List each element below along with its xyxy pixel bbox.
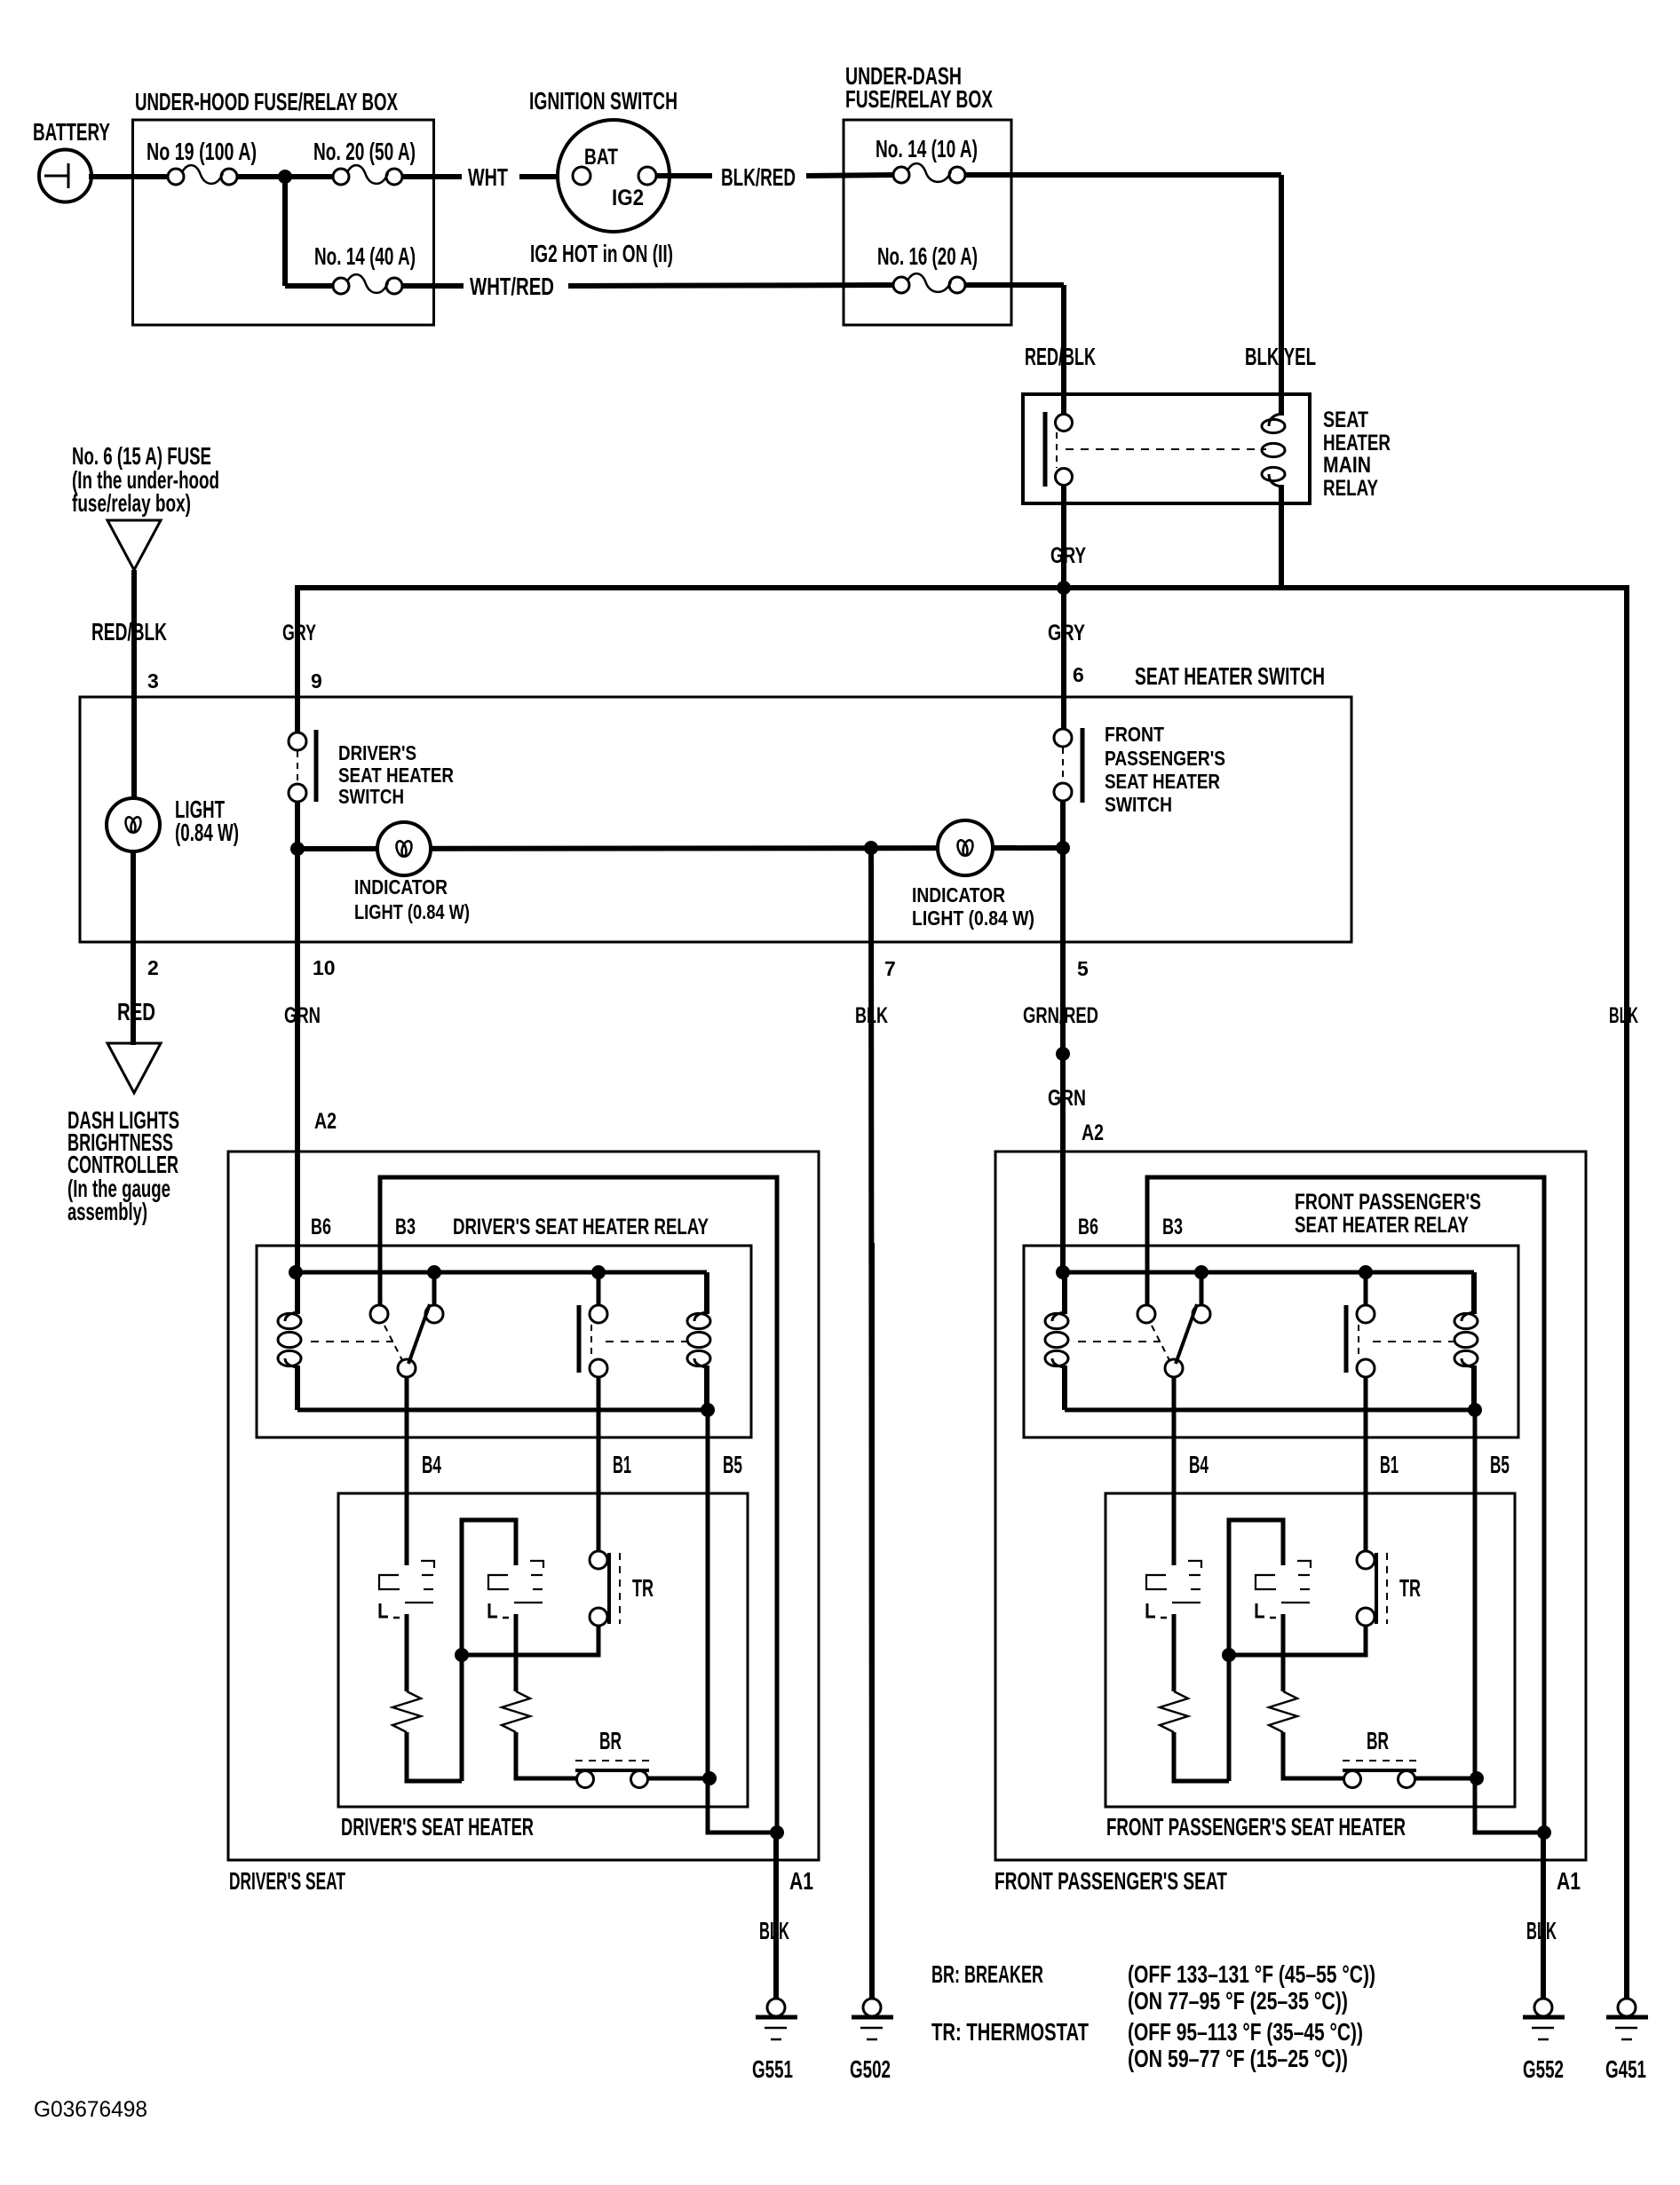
main relay coil [1279,396,1284,416]
svg-text:10: 10 [313,956,336,979]
svg-text:RED/BLK: RED/BLK [91,618,167,645]
ground G451 [1624,1953,1629,1999]
svg-text:FRONT PASSENGER'S: FRONT PASSENGER'S [1295,1190,1481,1215]
svg-text:G502: G502 [850,2055,891,2083]
wire GRY from main relay [1061,503,1066,590]
svg-text:G451: G451 [1605,2055,1646,2083]
svg-text:No. 14 (40 A): No. 14 (40 A) [314,242,416,270]
wire RED/BLK down to relay [1061,285,1066,398]
driver relay switch dashed arm [384,1326,402,1360]
wire BLK/YEL down to relay coil [1279,175,1284,396]
wire GRY to passenger switch [1061,588,1066,732]
junction J1 [278,170,292,184]
svg-text:TR: TR [1399,1574,1421,1602]
junction bus-common driver [427,1265,441,1279]
fuse No.14 (40 A) [333,278,349,294]
ignition terminal BAT [573,167,590,185]
driver resistor 2 [502,1691,530,1732]
wire WHT/RED segment a [402,283,464,289]
svg-text:DRIVER'S: DRIVER'S [338,741,416,764]
svg-text:B6: B6 [1078,1215,1098,1239]
svg-text:IG2 HOT in ON (II): IG2 HOT in ON (II) [530,240,673,267]
svg-text:BATTERY: BATTERY [33,118,110,146]
driver relay coil right [704,1272,709,1314]
junction J-B5 passenger [1468,1403,1482,1417]
passenger relay switch terminal common [1193,1305,1210,1323]
svg-text:HEATER: HEATER [1323,431,1391,455]
wire junction to fuse14-40A [285,283,335,289]
wire element2 feed passenger [1229,1520,1283,1781]
main relay contact bar [1043,412,1048,487]
svg-text:assembly): assembly) [67,1198,147,1225]
svg-text:DRIVER'S SEAT HEATER: DRIVER'S SEAT HEATER [341,1813,534,1841]
wire B5 driver [706,1410,710,1778]
wire RED/BLK fuse6 down [131,570,137,800]
svg-text:BR: BR [1367,1727,1389,1754]
indicator light L2 [377,822,431,875]
svg-text:BLK/YEL: BLK/YEL [1245,343,1316,370]
light L1 [107,798,160,851]
fuse No.6 (15 A) symbol [107,520,161,570]
junction bus-B6 passenger [1056,1265,1070,1279]
svg-text:TR: THERMOSTAT: TR: THERMOSTAT [931,2018,1089,2046]
driver switch dashed link [297,751,298,783]
svg-text:RELAY: RELAY [1323,476,1378,501]
under-dash fuse/relay box [844,120,1011,325]
main relay stub bottom [1061,484,1066,504]
driver relay contact terminal top [590,1305,607,1323]
wire B1 passenger [1364,1377,1368,1552]
wire BLK right down [1624,588,1629,1999]
svg-text:B3: B3 [395,1215,416,1239]
driver heater element 1 [421,1561,434,1568]
main relay contact dashed link [1056,432,1058,468]
wire B5 passenger [1473,1410,1478,1778]
junction J-BR driver [702,1771,717,1785]
junction bus-common passenger [1194,1265,1208,1279]
wire resistor1 bottom driver [407,1732,462,1781]
wire B1 driver [597,1377,601,1552]
svg-text:PASSENGER'S: PASSENGER'S [1105,747,1225,770]
driver relay switch terminal B3 [370,1305,388,1323]
passenger relay contact dashed [1358,1325,1359,1358]
breaker BR passenger terminal right [1399,1771,1415,1788]
wire GRN passenger down [1060,1054,1066,1275]
wire element2 to resistor2 driver [514,1614,519,1691]
fuse No.20 (50 A) [333,169,349,185]
driver seat heater switch SW2 terminal bottom [289,784,306,802]
thermostat TR passenger bars [1375,1553,1378,1624]
passenger relay switch arm [1176,1304,1197,1364]
wire fuse19 to junction [237,174,335,179]
svg-text:DRIVER'S SEAT HEATER RELAY: DRIVER'S SEAT HEATER RELAY [453,1215,709,1239]
wire TR to junction driver [462,1626,598,1655]
driver relay switch terminal common [425,1305,443,1323]
seat heater main relay U1 box [1023,394,1310,503]
wire driver switch to junction [295,802,300,851]
thermostat TR driver bars [607,1553,611,1624]
passenger relay contact bar [1344,1305,1349,1373]
svg-text:No. 20 (50 A): No. 20 (50 A) [313,138,416,165]
passenger seat heater switch SW3 terminal bottom [1054,783,1072,801]
svg-text:INDICATOR: INDICATOR [354,875,448,899]
svg-text:SEAT HEATER RELAY: SEAT HEATER RELAY [1295,1213,1469,1238]
svg-text:SEAT: SEAT [1323,408,1368,432]
svg-text:B6: B6 [311,1215,331,1239]
svg-text:B4: B4 [422,1451,441,1478]
svg-text:A1: A1 [789,1867,813,1895]
svg-text:GRN: GRN [1048,1086,1086,1111]
svg-text:SWITCH: SWITCH [1105,793,1172,816]
indicator light L3 [938,820,993,875]
fuse No.14 (10 A) [893,167,909,183]
wire element2 feed driver [462,1520,516,1781]
passenger relay bus top [1063,1271,1474,1275]
passenger relay contact terminal top [1357,1305,1375,1323]
main relay stub top [1061,394,1066,416]
wire WHT/RED segment b [568,285,895,286]
svg-text:B4: B4 [1189,1451,1208,1478]
svg-text:WHT: WHT [468,163,508,191]
wire indicator bus left [297,848,1063,849]
driver seat heater box [338,1493,748,1807]
svg-text:B3: B3 [1162,1215,1183,1239]
wire B3 loop passenger [1147,1177,1544,1833]
svg-text:SEAT HEATER: SEAT HEATER [1105,770,1220,793]
wire B4 driver [405,1377,409,1565]
ground G552 [1541,1831,1546,1999]
junction J2 GRY [1057,581,1071,595]
passenger seat heater switch SW3 terminal top [1054,729,1072,747]
junction J-TR driver [455,1648,469,1662]
svg-text:FUSE/RELAY BOX: FUSE/RELAY BOX [845,85,993,113]
svg-text:(0.84 W): (0.84 W) [175,819,239,846]
passenger relay dashed link left [1078,1341,1161,1342]
driver relay bus top [296,1271,707,1275]
wire BLK/YEL from coil down [1279,503,1284,590]
svg-text:(ON 59–77 °F (15–25 °C)): (ON 59–77 °F (15–25 °C)) [1128,2045,1348,2072]
wire breaker to B5 passenger [1415,1777,1475,1781]
svg-text:RED: RED [117,998,155,1025]
svg-text:GRY: GRY [282,621,316,645]
svg-text:No 19 (100 A): No 19 (100 A) [147,138,257,165]
fuse No.16 (20 A) [893,277,909,293]
wire junction J1 down [282,177,288,286]
driver relay stub common [432,1272,437,1306]
bus wire horizontal y662 [295,585,1629,590]
svg-text:B5: B5 [1490,1451,1510,1478]
passenger resistor 2 [1269,1691,1297,1732]
wire element1 to resistor1 driver [405,1614,409,1691]
arrow to dash lights controller [107,1043,161,1093]
breaker BR driver bars [575,1769,649,1772]
passenger relay switch terminal B4 [1165,1359,1183,1377]
passenger heater element 2 [1297,1561,1311,1568]
driver relay switch arm [408,1304,430,1364]
passenger relay coil right [1471,1272,1477,1314]
svg-text:LIGHT (0.84 W): LIGHT (0.84 W) [912,906,1034,930]
svg-text:B5: B5 [723,1451,742,1478]
wire BLK/RED segment a [656,173,712,178]
ignition switch SW1 [558,120,670,232]
svg-text:fuse/relay box): fuse/relay box) [72,489,191,517]
driver relay contact terminal bottom [590,1359,607,1377]
svg-text:BLK: BLK [1609,1003,1638,1028]
svg-text:SEAT HEATER SWITCH: SEAT HEATER SWITCH [1135,662,1325,690]
thermostat TR driver terminal bottom [590,1608,607,1626]
svg-text:BR: BREAKER: BR: BREAKER [931,1960,1043,1988]
passenger resistor 1 [1160,1691,1188,1732]
wire BLK mid down [871,848,872,1999]
junction bus-B6 driver [289,1265,303,1279]
svg-text:(ON 77–95 °F (25–35 °C)): (ON 77–95 °F (25–35 °C)) [1128,1987,1348,2015]
passenger relay stub contact [1364,1272,1368,1306]
driver resistor 1 [392,1691,421,1732]
svg-text:A2: A2 [314,1109,337,1134]
passenger relay switch dashed arm [1152,1326,1169,1360]
breaker BR driver terminal left [577,1771,594,1788]
fuse No.19 (100 A) [168,169,184,185]
svg-text:No. 16 (20 A): No. 16 (20 A) [877,242,978,270]
under-hood fuse/relay box [133,120,434,325]
driver relay dashed link left [311,1341,393,1342]
wire resistor2 to breaker passenger [1283,1732,1343,1778]
driver relay contact bar [577,1305,582,1373]
driver relay stub contact [597,1272,601,1306]
ground G551 [773,1831,779,1999]
driver switch bar [314,730,319,802]
wire WHT segment a [402,174,462,179]
svg-text:UNDER-HOOD FUSE/RELAY BOX: UNDER-HOOD FUSE/RELAY BOX [135,88,398,115]
junction J-B5 driver [701,1403,715,1417]
wire fuse14 to corner [965,172,1281,178]
svg-text:(OFF 95–113 °F (35–45 °C)): (OFF 95–113 °F (35–45 °C)) [1128,2018,1363,2046]
wire resistor2 to breaker driver [516,1732,576,1778]
svg-text:IGNITION SWITCH: IGNITION SWITCH [529,87,678,115]
thermostat TR driver terminal top [590,1551,607,1569]
main relay terminal bottom [1056,469,1073,486]
svg-text:GRN/RED: GRN/RED [1023,1003,1098,1028]
wire passenger switch to junction [1060,801,1066,848]
thermostat TR passenger terminal bottom [1357,1608,1375,1626]
junction bus-contact passenger [1359,1265,1373,1279]
junction J6 GRN [1056,1047,1070,1061]
wire GRN driver down [295,849,300,1275]
junction J-BR passenger [1470,1771,1484,1785]
driver seat box [228,1152,819,1860]
wire fuse16 to corner [965,282,1064,288]
junction J-A1 driver [770,1825,784,1840]
wire GRY to driver switch [295,588,300,735]
passenger switch bar [1081,728,1085,803]
passenger switch dashed link [1062,748,1064,782]
svg-text:9: 9 [311,669,322,693]
svg-text:G551: G551 [752,2055,793,2083]
driver seat heater switch SW2 terminal top [289,732,306,750]
wire GRN/RED down [1060,848,1066,1054]
svg-text:G03676498: G03676498 [34,2097,147,2122]
main relay terminal top [1056,415,1073,431]
svg-text:GRN: GRN [284,1003,321,1028]
svg-text:6: 6 [1073,663,1084,686]
driver relay contact dashed [590,1325,592,1358]
junction bus-contact driver [591,1265,606,1279]
svg-text:GRY: GRY [1050,543,1086,568]
thermostat TR passenger terminal top [1357,1551,1375,1569]
wire TR to junction passenger [1229,1626,1366,1655]
wire B5 to A1 driver [708,1778,777,1833]
svg-text:INDICATOR: INDICATOR [912,883,1005,906]
svg-text:IG2: IG2 [612,186,644,210]
junction J5 [1056,841,1070,855]
passenger seat heater box [1105,1493,1515,1807]
wire breaker to B5 driver [648,1777,708,1781]
ground G502 [869,1243,875,1999]
svg-text:(OFF 133–131 °F (45–55 °C)): (OFF 133–131 °F (45–55 °C)) [1128,1960,1375,1988]
svg-text:BLK/RED: BLK/RED [721,163,796,191]
breaker BR driver terminal right [631,1771,648,1788]
passenger relay coil left [1062,1272,1067,1314]
junction J-A1 passenger [1537,1825,1551,1840]
breaker BR passenger terminal left [1344,1771,1361,1788]
junction J-TR passenger [1222,1648,1236,1662]
passenger heater element 1 [1188,1561,1201,1568]
svg-text:A1: A1 [1557,1867,1581,1895]
wire B4 passenger [1172,1377,1177,1565]
wire element1 to resistor1 passenger [1172,1614,1177,1691]
ignition terminal IG2 [638,167,656,185]
svg-text:SEAT HEATER: SEAT HEATER [338,764,454,787]
svg-text:DRIVER'S SEAT: DRIVER'S SEAT [229,1867,345,1895]
seat heater switch box [80,697,1351,942]
wire WHT segment b [519,174,574,179]
driver relay coil left [295,1272,300,1314]
passenger relay bus bottom [1065,1408,1475,1413]
svg-text:B1: B1 [613,1451,631,1478]
wire element2 to resistor2 passenger [1281,1614,1286,1691]
passenger relay stub common [1200,1272,1204,1306]
wire resistor1 bottom passenger [1174,1732,1229,1781]
passenger relay contact terminal bottom [1357,1359,1375,1377]
wire battery to under-hood box [89,174,170,179]
driver relay bus bottom [297,1408,708,1413]
svg-text:LIGHT (0.84 W): LIGHT (0.84 W) [354,900,470,923]
svg-text:GRY: GRY [1048,621,1085,645]
svg-text:TR: TR [632,1574,654,1602]
junction J3 [290,842,305,856]
svg-text:7: 7 [884,957,896,980]
svg-text:FRONT: FRONT [1105,723,1164,746]
wire B3 loop driver [380,1177,777,1833]
svg-text:B1: B1 [1380,1451,1399,1478]
svg-text:BLK: BLK [855,1003,888,1028]
passenger relay switch terminal B3 [1137,1305,1155,1323]
junction J4 BLK [864,841,878,855]
svg-text:BAT: BAT [584,145,618,170]
passenger seat heater relay box [1024,1246,1518,1437]
driver seat heater relay box [257,1246,751,1437]
svg-text:RED/BLK: RED/BLK [1025,343,1096,370]
breaker BR passenger bars [1343,1769,1416,1772]
svg-text:5: 5 [1077,957,1089,980]
svg-text:SWITCH: SWITCH [338,785,404,808]
svg-text:WHT/RED: WHT/RED [470,273,554,300]
driver heater element 2 [530,1561,543,1568]
svg-text:3: 3 [147,669,159,693]
wire RED below light [131,851,136,1045]
wire BLK/RED segment b [806,175,895,176]
passenger seat box [995,1152,1586,1860]
svg-text:2: 2 [147,956,159,979]
svg-text:MAIN: MAIN [1323,453,1371,478]
svg-text:BR: BR [599,1727,622,1754]
driver relay switch terminal B4 [398,1359,416,1377]
wire B5 to A1 passenger [1475,1778,1544,1833]
svg-text:A2: A2 [1082,1120,1104,1145]
svg-text:FRONT PASSENGER'S SEAT: FRONT PASSENGER'S SEAT [995,1867,1227,1895]
svg-text:G552: G552 [1523,2055,1564,2083]
battery B1 [39,150,91,202]
svg-text:FRONT PASSENGER'S SEAT HEATER: FRONT PASSENGER'S SEAT HEATER [1106,1813,1406,1841]
svg-text:No. 14 (10 A): No. 14 (10 A) [876,135,978,162]
